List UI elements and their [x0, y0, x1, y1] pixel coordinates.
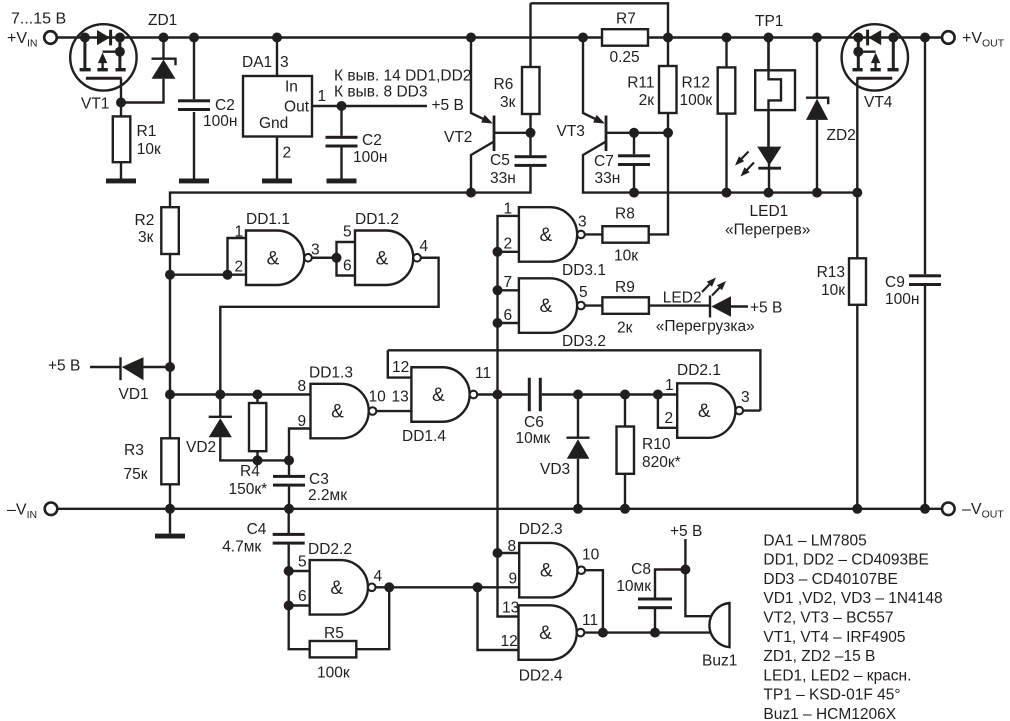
wire bus stub DD3.2 pin7	[498, 289, 519, 291]
svg-text:«Перегрев»: «Перегрев»	[725, 222, 810, 239]
svg-text:TP1: TP1	[755, 13, 783, 30]
wire DA1 pin3 to +V rail	[276, 38, 278, 77]
svg-text:VD2: VD2	[186, 439, 216, 456]
node ZD2 on line	[812, 188, 822, 198]
svg-text:3: 3	[280, 54, 289, 71]
node DD1.3 pin9 / C3 junction	[284, 455, 294, 465]
svg-text:VD3: VD3	[540, 461, 570, 478]
wire DD2.1 output up to feedback line	[743, 409, 760, 411]
wire DD1.1 input bracket pins 1-2	[228, 238, 247, 275]
svg-text:4.7мк: 4.7мк	[222, 538, 261, 555]
svg-text:R8: R8	[615, 206, 635, 223]
svg-text:5: 5	[579, 284, 588, 301]
node R12 on +V rail	[722, 33, 732, 43]
svg-text:VD1 ,VD2, VD3 – 1N4148: VD1 ,VD2, VD3 – 1N4148	[763, 590, 942, 607]
transistor VT3 BC557 PNP	[557, 38, 858, 193]
svg-text:0.25: 0.25	[610, 49, 640, 66]
svg-text:DA1 – LM7805: DA1 – LM7805	[763, 532, 866, 549]
capacitor C5 33n	[490, 152, 547, 187]
svg-text:R2: R2	[135, 212, 155, 229]
svg-text:R13: R13	[817, 264, 845, 281]
wire DD2.2 pin5 stub	[289, 570, 310, 572]
node DD2.2 pin6	[284, 601, 294, 611]
wire DA1 gnd pin2 to ground	[276, 137, 278, 179]
svg-text:&: &	[698, 401, 711, 422]
svg-text:Buz1: Buz1	[702, 653, 737, 670]
node C7 bottom on line	[629, 188, 639, 198]
svg-text:2: 2	[235, 259, 244, 276]
svg-text:11: 11	[475, 365, 491, 382]
wire DD1.2 output feedback to node A	[220, 258, 438, 395]
node DD2.4 pin12 branch	[473, 582, 483, 592]
svg-text:DD2.2: DD2.2	[308, 541, 352, 558]
svg-text:10: 10	[582, 547, 600, 564]
svg-text:13: 13	[392, 389, 409, 406]
wire DD1.1 output to DD1.2	[312, 257, 337, 259]
node R11 bottom / R8 top	[663, 128, 673, 138]
svg-text:VT4: VT4	[864, 94, 893, 111]
wire R4 node to pin9/C3 node	[258, 459, 290, 461]
zener diode ZD2	[806, 38, 856, 193]
resistor R6 3k	[494, 3, 540, 155]
svg-text:100н: 100н	[885, 291, 919, 308]
svg-text:DA1: DA1	[242, 54, 272, 71]
node C2 on +V rail	[189, 33, 199, 43]
terminal -Vin	[45, 503, 58, 516]
node C2b on +5V wire	[337, 101, 347, 111]
svg-text:12: 12	[392, 359, 409, 376]
LED1 red	[725, 147, 810, 239]
svg-text:C7: C7	[594, 153, 614, 170]
LED2 red	[656, 278, 755, 336]
svg-text:DD3.2: DD3.2	[562, 333, 606, 350]
wire VT4 gate lead to line	[856, 79, 858, 193]
gate DD1.1 NAND	[235, 211, 320, 285]
svg-text:ZD1: ZD1	[148, 12, 177, 29]
svg-text:12: 12	[501, 633, 518, 650]
regulator DA1 LM7805	[242, 54, 326, 162]
wire R2 node down through VD1 node to node A	[169, 275, 171, 439]
resistor R2 3k	[135, 207, 179, 275]
svg-text:2: 2	[283, 145, 292, 162]
svg-text:&: &	[540, 561, 553, 582]
diode VD2 1N4148	[186, 395, 258, 461]
svg-text:&: &	[330, 578, 343, 599]
svg-text:VT2: VT2	[444, 129, 472, 146]
thermal switch TP1 KSD-01F	[755, 13, 795, 147]
node feedback at node A line	[215, 390, 225, 400]
svg-text:1: 1	[318, 88, 327, 105]
svg-text:&: &	[331, 402, 344, 423]
resistor R10 820k*	[617, 395, 681, 509]
buzzer Buz1	[702, 603, 737, 670]
capacitor C9 100n	[885, 38, 941, 509]
svg-text:DD2.4: DD2.4	[519, 668, 563, 685]
svg-text:R5: R5	[324, 625, 344, 642]
wire feedback line DD2.1 output to DD1.4 pin 12	[388, 350, 761, 410]
svg-text:5: 5	[298, 554, 307, 571]
svg-text:10: 10	[369, 389, 387, 406]
svg-text:DD1.3: DD1.3	[309, 365, 353, 382]
ground under R1	[106, 179, 136, 184]
svg-text:150к*: 150к*	[229, 481, 268, 498]
svg-text:&: &	[267, 248, 280, 269]
svg-text:10к: 10к	[614, 248, 638, 265]
svg-text:DD2.1: DD2.1	[677, 362, 721, 379]
resistor R11 2k	[627, 38, 676, 133]
gate DD1.2 NAND	[343, 211, 429, 285]
svg-text:10к: 10к	[137, 141, 161, 158]
svg-text:R11: R11	[627, 75, 654, 92]
node R5 on DD2.2 output	[384, 582, 394, 592]
node R7 right on +V rail	[663, 33, 673, 43]
svg-text:75к: 75к	[124, 466, 148, 483]
svg-text:1: 1	[235, 224, 244, 241]
node VT2 collector on line	[466, 188, 476, 198]
transistor VT4 IRF4905 p-channel MOSFET	[842, 24, 908, 90]
resistor R3 75k	[124, 438, 179, 509]
wire R2 node to DD1.1 inputs	[170, 274, 228, 276]
svg-text:2: 2	[665, 410, 674, 427]
gate DD2.2 NAND	[298, 541, 383, 615]
svg-text:3: 3	[311, 242, 320, 259]
wire to DD2.4 pin12	[478, 587, 519, 650]
node DD2.3/DD2.4 outputs join	[598, 628, 608, 638]
gate DD2.1 NAND	[665, 362, 750, 438]
node C9 on -V rail	[920, 504, 930, 514]
node bus DD3.2 pin6	[493, 318, 503, 328]
resistor R9 2k	[585, 279, 710, 337]
node C3 C4 on -V rail	[284, 504, 294, 514]
svg-text:VT1: VT1	[81, 96, 109, 113]
svg-text:4: 4	[374, 568, 383, 585]
wire DD2.2 input bracket and R5 loop	[289, 571, 310, 649]
svg-text:C2: C2	[215, 97, 235, 114]
svg-text:LED2: LED2	[663, 290, 702, 307]
svg-text:4: 4	[420, 238, 429, 255]
svg-text:&: &	[376, 248, 389, 269]
svg-text:13: 13	[502, 600, 519, 617]
svg-text:DD3 – CD40107BE: DD3 – CD40107BE	[763, 571, 897, 588]
svg-text:+5 В: +5 В	[670, 523, 702, 540]
node VT2 emitter on +V rail	[466, 33, 476, 43]
node R4 top	[253, 390, 263, 400]
svg-text:&: &	[540, 296, 553, 317]
resistor R4 150k*	[229, 395, 268, 499]
node DD2.2 pin5	[284, 566, 294, 576]
svg-text:8: 8	[508, 538, 517, 555]
node ZD2 on +V rail	[812, 33, 822, 43]
capacitor C2 100n (output)	[326, 106, 388, 179]
resistor R12 100k	[680, 38, 736, 193]
svg-text:In: In	[285, 79, 298, 96]
node R12 on line	[722, 188, 732, 198]
node R13 on -V rail	[852, 504, 862, 514]
capacitor C4 4.7uF	[222, 509, 305, 571]
svg-text:3: 3	[741, 389, 750, 406]
wire DD1.3 output to DD1.4 pin 13	[376, 410, 411, 412]
svg-text:DD1, DD2 – CD4093BE: DD1, DD2 – CD4093BE	[763, 552, 928, 569]
wire DA1 output +5V	[312, 105, 427, 107]
svg-text:TP1 – KSD-01F 45°: TP1 – KSD-01F 45°	[763, 687, 900, 704]
svg-text:C3: C3	[309, 471, 329, 488]
node DD1.1 input bracket	[223, 270, 233, 280]
svg-text:R6: R6	[494, 76, 514, 93]
node line end VT4 gate R13	[852, 188, 862, 198]
wire DD1.4 output to bus	[477, 393, 497, 395]
diode VD1 1N4148	[90, 357, 170, 403]
ground under DA1	[262, 179, 292, 184]
resistor R8 10k	[585, 133, 668, 265]
wire node A to DD1.3 pin 8	[170, 393, 311, 395]
terminal -Vout	[942, 503, 955, 516]
resistor R13 10k	[817, 193, 866, 509]
svg-text:R3: R3	[124, 442, 144, 459]
wire DD2.3 output down to DD2.4 output	[585, 570, 603, 632]
node bus DD2.3 pin8	[493, 548, 503, 558]
svg-text:К выв. 8 DD3: К выв. 8 DD3	[334, 84, 428, 101]
svg-text:R12: R12	[682, 75, 710, 92]
node bus DD3.1 pin2	[493, 247, 503, 257]
node bus DD3.2 pin7	[493, 285, 503, 295]
wire VT2/C5 collector line to R2	[170, 167, 531, 207]
wire C6 to DD2.1 pin1	[578, 393, 677, 395]
transistor VT2 BC557 PNP	[444, 38, 531, 193]
resistor R7 0.25 shunt	[602, 11, 648, 67]
wire bus stub DD3.2 pin6	[498, 322, 519, 324]
wire -V rail from -Vin to -Vout	[58, 508, 942, 510]
svg-text:10мк: 10мк	[516, 430, 551, 447]
svg-text:DD1.2: DD1.2	[355, 211, 399, 228]
svg-text:9: 9	[298, 413, 307, 430]
ground on -V rail	[155, 534, 185, 539]
svg-text:33н: 33н	[490, 170, 516, 187]
svg-text:9: 9	[509, 571, 518, 588]
wire bus stub DD3.1 pin2	[498, 251, 519, 253]
ground under C2	[179, 179, 209, 184]
terminal +Vout	[942, 31, 955, 44]
gate DD3.1 NAND	[504, 201, 606, 280]
svg-text:2к: 2к	[617, 320, 633, 337]
svg-text:Out: Out	[284, 99, 310, 116]
svg-text:C9: C9	[885, 274, 905, 291]
svg-text:ZD1, ZD2 –15 В: ZD1, ZD2 –15 В	[763, 648, 875, 665]
node R7 left on +V rail	[578, 33, 588, 43]
capacitor C7 33n	[594, 133, 650, 193]
svg-text:DD3.1: DD3.1	[562, 262, 606, 279]
svg-text:C6: C6	[524, 414, 544, 431]
gate DD1.4 NAND	[392, 359, 491, 445]
wire DD2.1 pin2 bracket	[658, 395, 677, 428]
svg-text:3: 3	[578, 214, 587, 231]
wire DD1.3 pin 9 bracket	[289, 429, 311, 461]
svg-text:«Перегрузка»: «Перегрузка»	[656, 318, 755, 335]
svg-text:10мк: 10мк	[616, 578, 651, 595]
svg-text:100к: 100к	[317, 665, 350, 682]
wire +5V to buzzer top	[685, 539, 712, 616]
svg-text:DD1.4: DD1.4	[402, 428, 446, 445]
node VT1 gate / R1 / ZD1 junction	[116, 98, 126, 108]
node A on vertical	[165, 390, 175, 400]
svg-text:+5 В: +5 В	[750, 300, 782, 317]
svg-text:R4: R4	[240, 463, 260, 480]
wire VT1 gate lead	[120, 79, 122, 103]
node ZD1 on +V rail	[159, 33, 169, 43]
svg-text:C4: C4	[247, 521, 267, 538]
node C8 bottom on output wire	[650, 628, 660, 638]
svg-text:+5 В: +5 В	[432, 97, 464, 114]
svg-text:6: 6	[298, 588, 307, 605]
wire -V rail ground stub	[169, 509, 171, 534]
svg-text:8: 8	[298, 378, 307, 395]
svg-text:3к: 3к	[138, 229, 154, 246]
svg-text:10к: 10к	[821, 282, 845, 299]
svg-text:3к: 3к	[500, 94, 516, 111]
svg-text:7: 7	[504, 274, 513, 291]
node VD3 on -V rail	[573, 504, 583, 514]
svg-text:1: 1	[665, 377, 674, 394]
svg-text:&: &	[539, 623, 552, 644]
node R10 on -V rail	[620, 504, 630, 514]
wire DD2.4 output to buzzer	[584, 631, 712, 633]
wire bus stub DD2.3 pin8	[498, 552, 520, 554]
capacitor C2 100n (input)	[178, 38, 237, 179]
ground under C2 output	[327, 179, 357, 184]
gate DD2.4 NAND	[501, 600, 599, 685]
svg-text:R7: R7	[616, 11, 636, 28]
svg-text:R10: R10	[642, 436, 671, 453]
svg-text:1: 1	[504, 201, 513, 218]
wire DD2.2 output to DD2.3 pin9	[376, 586, 520, 588]
node R10 top	[620, 390, 630, 400]
node DD2.1 input bracket	[653, 390, 663, 400]
node DD1.2 input bracket	[332, 253, 342, 263]
zener diode ZD1	[121, 38, 176, 103]
gate DD1.3 NAND	[298, 365, 387, 439]
node VD3 top	[573, 390, 583, 400]
gate DD2.3 NAND	[508, 521, 600, 597]
svg-text:R9: R9	[615, 279, 635, 296]
svg-text:2.2мк: 2.2мк	[308, 487, 347, 504]
node DA1 pin3 on +V rail	[272, 33, 282, 43]
transistor VT1 IRF4905 p-channel MOSFET	[70, 24, 136, 90]
node C8 link on +5V wire	[680, 565, 690, 575]
capacitor C6 10uF	[498, 378, 579, 447]
svg-text:Gnd: Gnd	[259, 115, 288, 132]
wire +V rail from +Vin terminal to +Vout terminal	[57, 36, 942, 38]
capacitor C8 10uF	[616, 561, 685, 633]
node VD1 junction	[165, 362, 175, 372]
svg-text:6: 6	[343, 258, 352, 275]
svg-text:VT3: VT3	[557, 123, 585, 140]
svg-text:К выв. 14 DD1,DD2: К выв. 14 DD1,DD2	[334, 68, 471, 85]
wire input bus DD3 inputs to DD2.3/DD2.4 inputs	[498, 216, 519, 617]
svg-text:&: &	[432, 385, 445, 406]
svg-text:DD2.3: DD2.3	[519, 521, 563, 538]
wire R6 top bypass to R7 right node	[531, 3, 669, 37]
svg-text:7...15 В: 7...15 В	[11, 11, 66, 28]
svg-text:820к*: 820к*	[642, 454, 681, 471]
svg-text:2к: 2к	[639, 92, 655, 109]
node bus at DD1.4 output	[493, 390, 503, 400]
svg-text:100н: 100н	[353, 149, 387, 166]
parts list	[763, 532, 942, 721]
svg-text:ZD2: ZD2	[827, 127, 856, 144]
node R2 bottom / DD1.1 inputs	[165, 270, 175, 280]
terminal +Vin	[44, 31, 57, 44]
node VT3 base / C7	[629, 128, 639, 138]
svg-text:C5: C5	[490, 152, 510, 169]
svg-text:R1: R1	[137, 123, 157, 140]
node R4 bottom / VD2	[253, 455, 263, 465]
wire DD2.2 pin6 stub	[289, 604, 310, 606]
node R3 on -V rail	[165, 504, 175, 514]
svg-text:DD1.1: DD1.1	[246, 211, 290, 228]
node C9 on +V rail	[920, 33, 930, 43]
gate DD3.2 NAND	[504, 274, 606, 350]
svg-text:LED1, LED2 – красн.: LED1, LED2 – красн.	[763, 667, 911, 684]
diode VD3 1N4148	[540, 395, 590, 509]
wire DD1.2 input bracket pins 5-6	[337, 242, 356, 276]
svg-text:5: 5	[343, 224, 352, 241]
node TP1 on +V rail	[764, 33, 774, 43]
svg-text:C8: C8	[631, 561, 651, 578]
svg-text:100к: 100к	[680, 92, 713, 109]
svg-text:+5 В: +5 В	[48, 358, 80, 375]
svg-text:33н: 33н	[595, 170, 621, 187]
wire DD1.4 pin12 bracket to feedback line	[388, 350, 412, 377]
resistor R1 10k	[113, 103, 161, 179]
svg-text:100н: 100н	[203, 113, 237, 130]
svg-text:C2: C2	[362, 132, 382, 149]
svg-text:2: 2	[504, 236, 513, 253]
resistor R5 100k	[310, 587, 390, 681]
capacitor C3 2.2uF	[273, 460, 347, 508]
svg-text:6: 6	[504, 307, 513, 324]
svg-text:&: &	[540, 225, 553, 246]
node VT2 base / R6 / C5	[526, 128, 536, 138]
svg-text:LED1: LED1	[750, 203, 789, 220]
svg-text:VT2, VT3 – BC557: VT2, VT3 – BC557	[763, 610, 893, 627]
svg-text:VD1: VD1	[119, 386, 149, 403]
node LED1 on line	[764, 188, 774, 198]
svg-text:VT1, VT4 – IRF4905: VT1, VT4 – IRF4905	[763, 629, 905, 646]
svg-text:11: 11	[582, 612, 598, 629]
svg-text:Buz1 – HCM1206X: Buz1 – HCM1206X	[763, 706, 896, 721]
